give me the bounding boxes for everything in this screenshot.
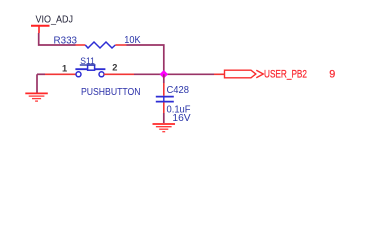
power symbol VIO_ADJ: [31, 14, 73, 33]
wire junction to port: [164, 73, 214, 75]
svg-text:9: 9: [329, 69, 335, 81]
junction node: [160, 70, 168, 78]
svg-text:R333: R333: [54, 36, 78, 47]
capacitor C428 bottom pin: [163, 102, 165, 113]
capacitor C428 plates: [156, 96, 174, 98]
pushbutton S11 pin 2: [104, 73, 134, 75]
pushbutton S11 pin 1: [45, 73, 76, 75]
ground symbol left: [25, 93, 48, 101]
off-page connector USER_PB2: [225, 70, 264, 78]
resistor R333 left pin: [76, 44, 86, 46]
capacitor C428 top pin: [163, 83, 165, 96]
wire left to ground: [36, 74, 38, 92]
wire pin2 to junction: [134, 73, 164, 75]
power pin stub: [38, 26, 40, 33]
resistor R333 right pin: [115, 44, 126, 46]
wire resistor to corner and down to junction: [127, 45, 164, 74]
svg-text:PUSHBUTTON: PUSHBUTTON: [81, 87, 141, 98]
wire capacitor to ground: [163, 113, 165, 123]
refdes underline: [80, 64, 96, 66]
svg-text:VIO_ADJ: VIO_ADJ: [36, 14, 74, 25]
svg-text:16V: 16V: [172, 113, 191, 124]
wire junction down to capacitor: [163, 74, 165, 83]
ground symbol right: [153, 124, 176, 132]
pushbutton S11 actuator bar: [75, 68, 105, 70]
resistor R333 body: [85, 42, 115, 48]
svg-text:2: 2: [112, 62, 117, 72]
svg-text:C428: C428: [167, 85, 190, 96]
svg-text:USER_PB2: USER_PB2: [264, 69, 307, 81]
pushbutton S11 contact circle right: [99, 72, 104, 77]
power bar: [31, 25, 50, 27]
pushbutton S11 contact circle left: [76, 72, 81, 77]
svg-text:1: 1: [62, 64, 67, 74]
wire from power to resistor row: [39, 33, 76, 45]
pushbutton S11 plunger: [88, 65, 95, 70]
capacitor internal stub: [163, 97, 165, 102]
wire pushbutton row left segment: [37, 73, 45, 75]
off-page connector pin: [214, 73, 225, 75]
